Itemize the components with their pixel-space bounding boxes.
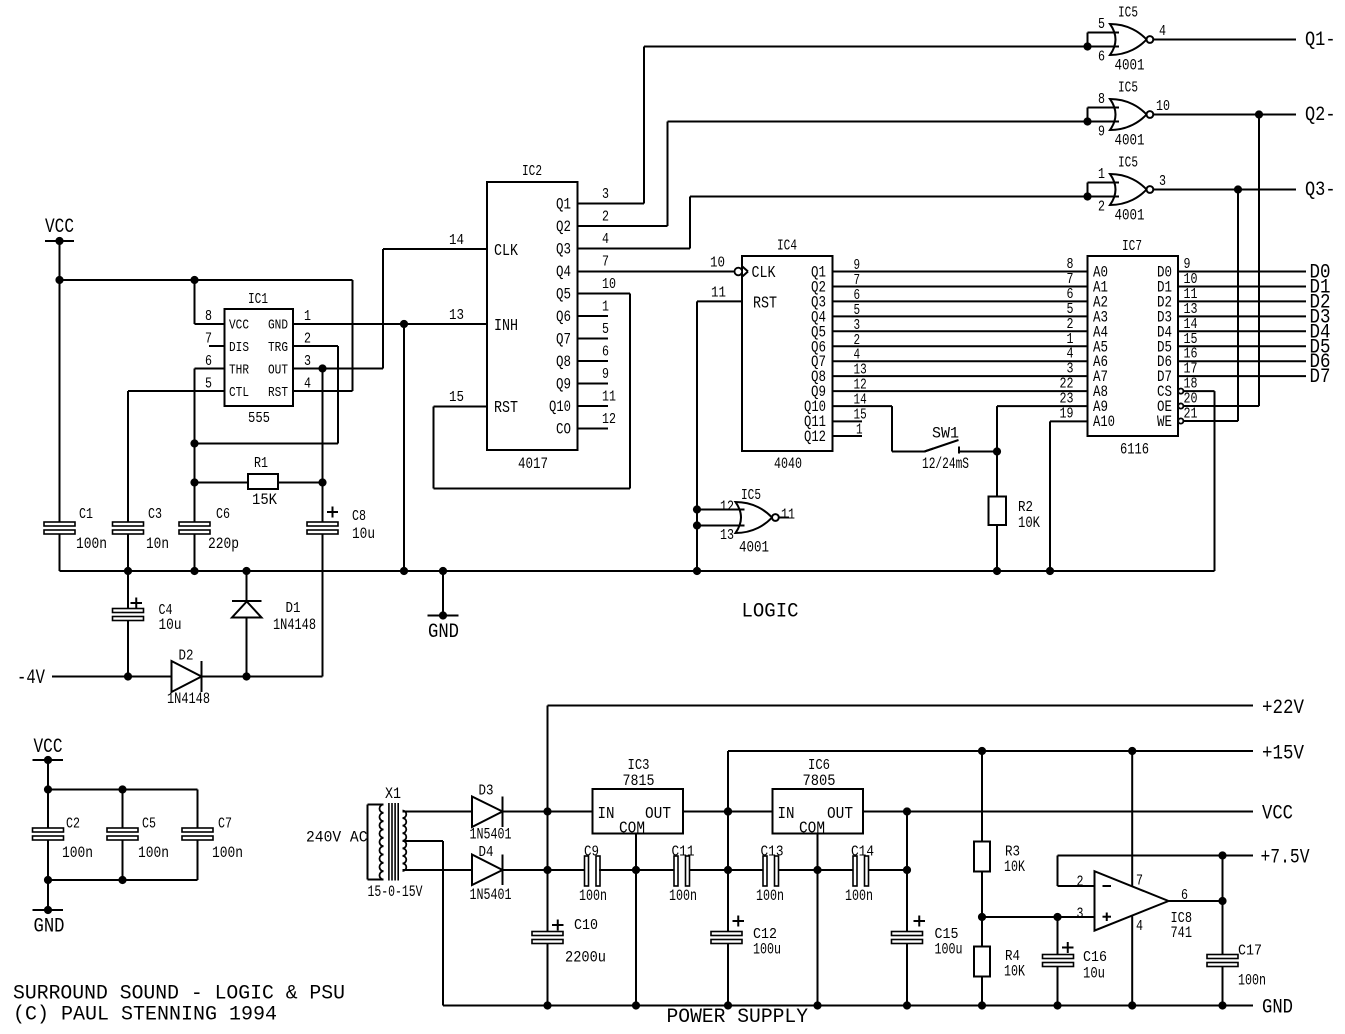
value 100u (C12) <box>753 941 781 959</box>
label R1 <box>254 455 268 472</box>
wire TRG riser <box>337 346 339 444</box>
wire -4V rail left <box>52 676 172 678</box>
wire IC1 pin3 OUT <box>293 368 383 370</box>
pin name Q7 IC4 <box>811 353 826 371</box>
label 4001 gate <box>1115 132 1145 150</box>
svg-text:4001: 4001 <box>1115 132 1145 150</box>
wire RST loop riser <box>433 407 435 489</box>
svg-text:2: 2 <box>1098 199 1105 216</box>
pin number 8 gate <box>1098 91 1105 108</box>
wire gate input tie <box>1087 33 1089 47</box>
value 100n (C17) <box>1238 972 1266 990</box>
pin name Q6 IC4 <box>811 338 826 356</box>
net D3 <box>1310 306 1331 329</box>
wire R1 right <box>278 482 323 484</box>
pin number 14 <box>449 232 464 249</box>
label 741 <box>1171 924 1193 942</box>
wire IC2 CLK <box>383 248 487 250</box>
pin name COM IC6 <box>799 820 825 839</box>
junction rectifier node bottom <box>543 866 551 874</box>
wire R2 bottom <box>996 525 998 571</box>
svg-text:D2: D2 <box>179 648 194 665</box>
pin name Q11 IC4 <box>804 413 826 431</box>
wire Q1 riser <box>643 47 645 204</box>
junction +15V / opamp pin7 <box>1128 747 1136 755</box>
wire GND2 stub <box>47 880 49 910</box>
wire C14 to VCC node <box>869 869 908 871</box>
value 100n <box>76 535 107 553</box>
wire IC4 Q11 stub <box>833 420 863 422</box>
svg-text:4: 4 <box>304 376 311 393</box>
pin number 10 IC7 right <box>1184 271 1198 288</box>
pin number 11 IC4 <box>711 285 726 302</box>
pin number 6 IC2 <box>602 344 609 361</box>
svg-text:15K: 15K <box>252 491 277 509</box>
junction VCC node / cap row <box>903 866 911 874</box>
svg-text:1: 1 <box>304 308 311 325</box>
pin number 10 IC4 <box>710 255 725 272</box>
pin number 6 IC4 <box>854 287 861 304</box>
pin number 8 IC1 <box>205 308 212 325</box>
svg-text:8: 8 <box>1098 91 1105 108</box>
junction R1 left node <box>190 478 198 486</box>
svg-text:1N5401: 1N5401 <box>470 826 512 844</box>
value 1N5401 (D4) <box>470 886 512 904</box>
pin name Q1 IC4 <box>811 264 826 282</box>
label IC5 gate <box>1118 5 1138 22</box>
pin number 4 IC4 <box>854 347 861 364</box>
svg-text:100n: 100n <box>212 844 243 862</box>
label R4 <box>1005 948 1020 965</box>
label 4001 gate <box>1115 57 1145 75</box>
svg-text:OUT: OUT <box>645 805 671 824</box>
wire C16 bottom <box>1057 967 1059 1006</box>
wire SW1 to node <box>959 451 998 453</box>
wire Q2- riser to OE <box>1258 115 1260 407</box>
section label LOGIC <box>742 601 799 624</box>
svg-text:RST: RST <box>268 385 288 401</box>
wire IC2 Q3 <box>578 248 691 250</box>
resistor R1 <box>248 474 278 489</box>
wire IC7 D6 out <box>1178 360 1306 362</box>
svg-text:C16: C16 <box>1083 949 1107 966</box>
wire VCC2 rail <box>48 789 198 791</box>
svg-text:VCC: VCC <box>34 736 63 759</box>
net D4 <box>1310 321 1331 344</box>
pin name Q1 IC2 <box>556 196 571 214</box>
svg-text:1: 1 <box>602 299 609 316</box>
wire VCC node down <box>906 812 908 932</box>
svg-text:12: 12 <box>720 499 734 516</box>
svg-text:C9: C9 <box>584 844 599 861</box>
wire IC4 Q5 to IC7 A4 <box>833 330 1088 332</box>
wire gate4 output stub <box>779 517 789 519</box>
wire VCC2 down <box>47 760 49 828</box>
wire gate input tie <box>1087 183 1089 197</box>
value 1N4148 (D1) <box>273 616 316 634</box>
label IC7 <box>1122 238 1142 255</box>
pin number 2 IC1 <box>304 331 311 348</box>
wire IC1 pin5 CTL <box>128 390 225 392</box>
svg-text:7: 7 <box>205 331 212 348</box>
junction COM / cap row <box>632 866 640 874</box>
svg-text:10: 10 <box>1156 98 1170 115</box>
wire D1 cathode lead <box>246 571 248 601</box>
svg-text:13: 13 <box>449 307 464 324</box>
wire gate4 input lower <box>697 525 745 527</box>
pin number 9 IC7 right <box>1184 256 1191 273</box>
pin number 6 IC1 <box>205 353 212 370</box>
wire C7 bottom lead <box>197 840 199 880</box>
svg-text:5: 5 <box>1098 16 1105 33</box>
pin name D5 IC7 <box>1157 338 1172 356</box>
svg-text:8: 8 <box>205 308 212 325</box>
svg-text:C14: C14 <box>851 844 874 861</box>
svg-text:6: 6 <box>205 353 212 370</box>
pin number 5 IC1 <box>205 376 212 393</box>
pin number 13 IC4 <box>854 362 867 379</box>
pin number 10 IC2 <box>602 276 616 293</box>
label C15 <box>935 926 959 943</box>
value 10u <box>352 525 375 543</box>
wire C5 top lead <box>122 790 124 829</box>
wire IC4 Q1 to IC7 A0 <box>833 271 1088 273</box>
wire -4V rail right <box>202 676 323 678</box>
junction IC6 COM / GND rail <box>813 1001 821 1009</box>
pin name Q12 IC4 <box>804 428 826 446</box>
op IC3 7815 box <box>593 789 684 834</box>
op-amp IC8 741 <box>1095 871 1169 930</box>
label IC5 gate4 <box>741 487 761 504</box>
wire THR down to R1 node <box>194 369 196 524</box>
wire C2 bottom lead <box>47 840 49 880</box>
svg-text:100n: 100n <box>76 535 107 553</box>
pin number 2 gate <box>1098 199 1105 216</box>
pin name Q3 IC4 <box>811 293 826 311</box>
wire A9 lead <box>997 405 1088 407</box>
svg-text:14: 14 <box>449 232 464 249</box>
wire C15 bottom <box>906 944 908 1006</box>
ground symbol (bottom left) <box>33 909 64 911</box>
svg-text:VCC: VCC <box>45 216 74 239</box>
capacitor C10 (polarised) <box>532 920 564 944</box>
pin name A3 IC7 <box>1093 308 1108 326</box>
label C9 <box>584 844 599 861</box>
svg-text:D4: D4 <box>479 844 494 861</box>
pin name Q8 IC4 <box>811 368 826 386</box>
label C12 <box>753 926 777 943</box>
wire gate4 input upper <box>697 509 745 511</box>
pin name Q9 IC2 <box>556 376 571 394</box>
wire C8 bottom to -4V rail <box>322 534 324 677</box>
pin number 11 IC2 <box>602 389 616 406</box>
pin name Q5 IC2 <box>556 286 571 304</box>
wire IC2 output stub <box>578 405 609 407</box>
svg-text:D3: D3 <box>479 783 494 800</box>
pin number 13 gate4 <box>720 527 734 544</box>
label IC6 <box>808 757 830 774</box>
capacitor C12 (polarised) <box>711 916 744 944</box>
power symbol VCC (top left) <box>45 216 74 241</box>
pin number 4 IC8 <box>1136 918 1143 935</box>
pin number 6 IC7 left <box>1067 286 1074 303</box>
wire Q10 to SW1 <box>892 451 926 453</box>
title line 1 <box>13 983 345 1006</box>
svg-text:Q2-: Q2- <box>1305 104 1336 127</box>
diode D4 <box>472 855 503 886</box>
pin name DIS IC1 <box>229 340 249 356</box>
junction GND rail <box>903 1001 911 1009</box>
net D2 <box>1310 291 1331 314</box>
junction GND2 rail C5 <box>118 876 126 884</box>
junction output node <box>1218 897 1226 905</box>
capacitor C13 <box>763 856 779 886</box>
junction rectifier node top <box>543 807 551 815</box>
wire GND branch down to bus <box>403 324 405 571</box>
svg-text:Q4: Q4 <box>556 263 571 281</box>
pin name RST IC2 <box>494 399 518 418</box>
title line 2 <box>13 1004 277 1027</box>
pin name IN IC3 <box>598 805 615 824</box>
wire Q1 to gate1 <box>644 46 1088 48</box>
pin number 1 IC2 <box>602 299 609 316</box>
label IC4 <box>777 238 797 255</box>
net D5 <box>1310 336 1331 359</box>
junction ground bus <box>400 567 408 575</box>
svg-text:7805: 7805 <box>803 772 836 790</box>
pin number 7 IC1 <box>205 331 212 348</box>
wire RST riser to VCC rail <box>352 280 354 391</box>
svg-text:CLK: CLK <box>494 242 519 261</box>
svg-text:240V AC: 240V AC <box>306 829 368 847</box>
pin number 23 IC7 left <box>1060 391 1074 408</box>
value 100u (C15) <box>935 941 963 959</box>
wire ground bus <box>60 570 1215 572</box>
svg-text:C7: C7 <box>218 816 232 833</box>
svg-text:1N5401: 1N5401 <box>470 886 512 904</box>
pin number 22 IC7 left <box>1060 376 1074 393</box>
wire IC7 D3 out <box>1178 315 1306 317</box>
junction gate input <box>1083 42 1091 50</box>
junction +15V riser / OUT <box>724 807 732 815</box>
junction OUT node <box>318 364 326 372</box>
value 15K <box>252 491 277 509</box>
svg-text:1N4148: 1N4148 <box>167 690 210 708</box>
svg-text:SURROUND SOUND - LOGIC & PSU: SURROUND SOUND - LOGIC & PSU <box>13 983 345 1006</box>
junction IC6 COM / cap row <box>813 866 821 874</box>
junction Q3- riser <box>1234 185 1242 193</box>
wire IC2 output stub <box>578 428 609 430</box>
svg-text:6: 6 <box>1098 49 1105 66</box>
junction C4 / -4V rail <box>124 672 132 680</box>
value 100n (C14) <box>845 887 873 905</box>
capacitor C4 (polarised) <box>113 598 144 621</box>
pin name Q10 IC2 <box>549 398 571 416</box>
wire IC4 Q8 to IC7 A7 <box>833 375 1088 377</box>
wire IC2 output stub <box>578 338 609 340</box>
svg-text:DIS: DIS <box>229 340 249 356</box>
svg-text:10: 10 <box>602 276 616 293</box>
capacitor C15 (polarised) <box>892 916 926 944</box>
svg-text:15: 15 <box>449 389 464 406</box>
pin number 20 IC7 right <box>1184 391 1198 408</box>
pin number 7 IC8 <box>1136 873 1143 890</box>
pin name RST IC4 <box>753 295 777 314</box>
value 2200u <box>565 949 606 967</box>
svg-text:Q10: Q10 <box>549 398 571 416</box>
svg-text:5: 5 <box>205 376 212 393</box>
wire C3 bottom <box>127 534 129 571</box>
svg-text:+22V: +22V <box>1262 697 1304 720</box>
pin name A0 IC7 <box>1093 264 1108 282</box>
wire C13 to IC6 COM <box>779 869 818 871</box>
pin number 8 IC7 left <box>1067 256 1074 273</box>
junction gate4 in 13 <box>693 521 701 529</box>
pin number 3 gate <box>1159 173 1166 190</box>
pin name Q5 IC4 <box>811 323 826 341</box>
wire Q10 riser <box>891 406 893 451</box>
net D7 <box>1310 366 1331 389</box>
label IC1 <box>248 291 268 308</box>
pin name RST IC1 <box>268 385 288 401</box>
wire IC2 output stub <box>578 315 609 317</box>
wire IC4 Q12 stub <box>833 435 863 437</box>
junction GND rail <box>1053 1001 1061 1009</box>
op IC6 7805 box <box>773 789 864 834</box>
svg-text:2: 2 <box>304 331 311 348</box>
wire X1 secondary top lead <box>403 811 473 813</box>
junction GND2 symbol <box>44 906 52 914</box>
value 100n (C7) <box>212 844 243 862</box>
svg-text:COM: COM <box>619 820 645 839</box>
label D2 <box>179 648 194 665</box>
svg-text:GND: GND <box>1262 997 1293 1020</box>
junction GND net branch <box>400 320 408 328</box>
value 10u (C16) <box>1083 965 1105 983</box>
svg-text:C5: C5 <box>142 816 156 833</box>
label C11 <box>672 844 695 861</box>
svg-text:C3: C3 <box>148 506 162 523</box>
value 100n (C11) <box>669 887 697 905</box>
svg-text:OUT: OUT <box>827 805 853 824</box>
value 12/24mS <box>922 455 969 473</box>
wire C4 top <box>127 571 129 609</box>
svg-text:10u: 10u <box>159 616 182 634</box>
wire IC3 OUT <box>683 811 773 813</box>
svg-text:100u: 100u <box>935 941 963 959</box>
wire IC4 Q3 to IC7 A2 <box>833 300 1088 302</box>
svg-text:220p: 220p <box>208 535 239 553</box>
svg-text:5: 5 <box>602 321 609 338</box>
svg-text:TRG: TRG <box>268 340 288 356</box>
capacitor C16 (polarised) <box>1043 942 1074 967</box>
pin number 9 gate <box>1098 124 1105 141</box>
wire CTL down to C3 <box>127 391 129 523</box>
net Q2- <box>1305 104 1336 127</box>
wire gate input upper <box>1088 107 1120 109</box>
wire C10 bottom <box>547 944 549 1006</box>
svg-text:Q7: Q7 <box>556 331 571 349</box>
svg-text:7: 7 <box>1136 873 1143 890</box>
wire centre tap to GND rail <box>443 1005 548 1007</box>
svg-text:C1: C1 <box>79 506 93 523</box>
section label POWER SUPPLY <box>667 1006 809 1029</box>
wire IC1 pin1 GND to IC2 INH <box>293 323 487 325</box>
svg-text:3: 3 <box>1159 173 1166 190</box>
svg-text:7: 7 <box>602 254 609 271</box>
svg-text:CLK: CLK <box>752 264 777 283</box>
svg-text:IC7: IC7 <box>1122 238 1142 255</box>
svg-text:3: 3 <box>304 353 311 370</box>
wire IC2 output stub <box>578 360 609 362</box>
label X1 <box>385 785 401 803</box>
junction ground bus <box>439 567 447 575</box>
pin name GND IC1 <box>268 318 288 334</box>
wire IC3 COM down <box>635 834 637 1006</box>
junction ground bus <box>1046 567 1054 575</box>
pin number 21 IC7 right <box>1184 406 1198 423</box>
transformer X1 secondary winding <box>403 811 407 872</box>
value 10K (R4) <box>1004 963 1025 981</box>
switch SW1 <box>925 440 960 454</box>
svg-text:100n: 100n <box>1238 972 1266 990</box>
junction VCC symbol 2 <box>44 756 52 764</box>
svg-text:IN: IN <box>598 805 615 824</box>
svg-text:100n: 100n <box>669 887 697 905</box>
pin name A9 IC7 <box>1093 398 1108 416</box>
pin name A2 IC7 <box>1093 293 1108 311</box>
transformer X1 primary winding <box>380 805 384 880</box>
svg-text:100n: 100n <box>756 887 784 905</box>
wire node down to R2 <box>996 452 998 497</box>
pin name OUT IC6 <box>827 805 853 824</box>
label D3 <box>479 783 494 800</box>
label IC3 <box>628 757 650 774</box>
label C8 <box>352 508 366 525</box>
svg-text:4001: 4001 <box>739 539 769 557</box>
diode D2 <box>172 661 202 692</box>
transformer X1 core <box>389 803 398 881</box>
wire C1 bottom <box>59 534 61 571</box>
pin number 4 IC1 <box>304 376 311 393</box>
op IC4 4040 box <box>742 256 833 451</box>
svg-text:Q12: Q12 <box>804 428 826 446</box>
pin number 3 IC2 <box>602 186 609 203</box>
junction IC3 OUT node <box>724 807 732 815</box>
pin number 14 IC4 <box>854 392 867 409</box>
svg-text:9: 9 <box>1098 124 1105 141</box>
wire gate input upper <box>1088 32 1120 34</box>
wire pin4 supply <box>1131 916 1133 1005</box>
junction VCC2 rail <box>44 785 52 793</box>
NOR gate IC5 (pins 8,9 out 10) <box>1110 99 1153 130</box>
svg-text:100n: 100n <box>579 887 607 905</box>
junction D1 / -4V rail <box>242 672 250 680</box>
pin number 12 gate4 <box>720 499 734 516</box>
pin number 2 IC2 <box>602 209 609 226</box>
wire IC1 pin6 THR <box>195 368 225 370</box>
svg-text:12: 12 <box>602 411 616 428</box>
wire IC7 D7 out <box>1178 375 1306 377</box>
svg-text:100n: 100n <box>845 887 873 905</box>
svg-text:10n: 10n <box>146 535 169 553</box>
pin name OUT IC3 <box>645 805 671 824</box>
net GND (psu) <box>1262 997 1293 1020</box>
wire C5 bottom lead <box>122 840 124 880</box>
label D4 <box>479 844 494 861</box>
capacitor C17 <box>1207 955 1238 967</box>
wire +22V rail <box>548 705 1254 707</box>
